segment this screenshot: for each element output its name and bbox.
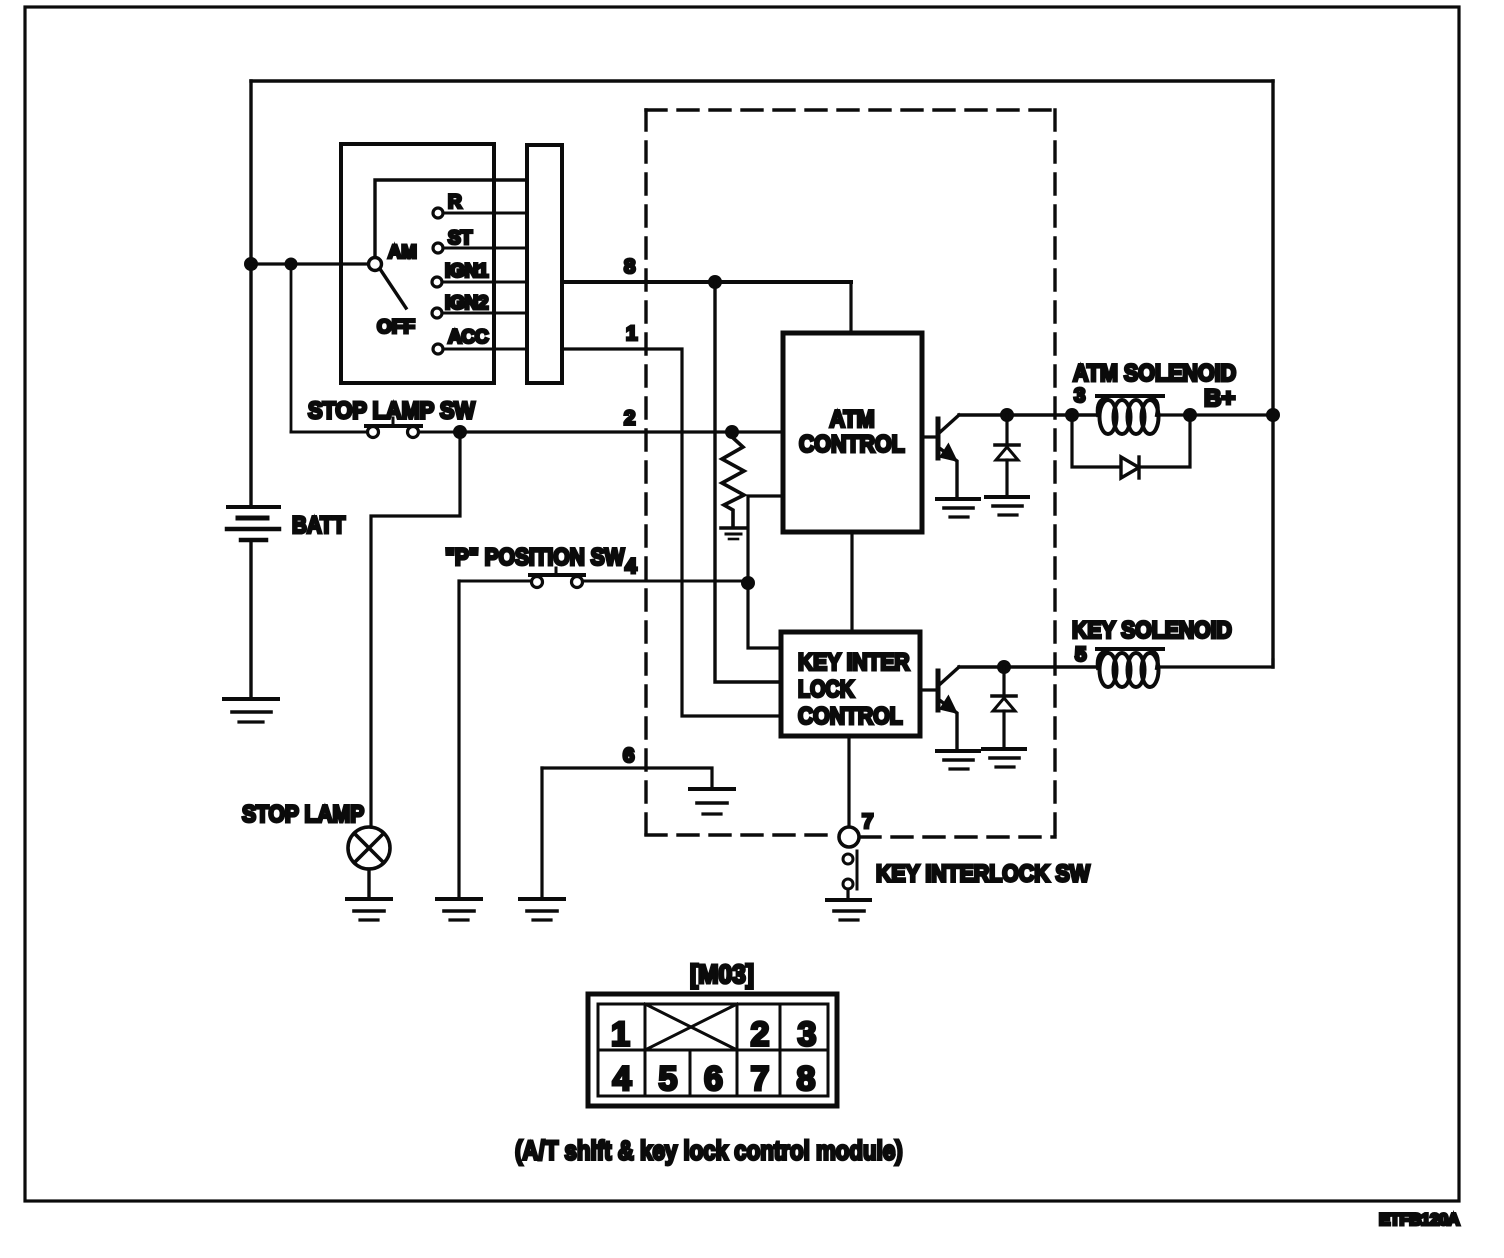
connector M03 [588, 994, 837, 1106]
svg-text:8: 8 [624, 255, 635, 278]
node: battery feed junction [244, 257, 258, 271]
terminal 7 [839, 827, 859, 847]
wire: L2 to B+ riser [1157, 660, 1273, 667]
svg-text:OFF: OFF [377, 317, 415, 338]
svg-text:ETFB120A: ETFB120A [1379, 1210, 1460, 1229]
block: ATM CONTROL U1 [783, 333, 922, 532]
diode D3 flyback loop [1072, 415, 1190, 478]
ground: resistor [721, 528, 746, 539]
svg-text:(A/T shift & key lock control: (A/T shift & key lock control module) [515, 1137, 903, 1166]
svg-text:B+: B+ [1204, 385, 1235, 412]
ground: D2 [983, 749, 1025, 767]
wire 5 collector line [959, 665, 1098, 668]
svg-text:4: 4 [625, 555, 637, 578]
wire 2 [460, 407, 783, 433]
transistor Q1 [922, 415, 959, 498]
ignition contact ST [433, 228, 527, 253]
node: wire 8 junction [708, 275, 722, 289]
ground: P position switch [437, 899, 481, 920]
svg-text:3: 3 [798, 1016, 817, 1054]
connector bar [527, 145, 562, 383]
svg-text:[M03]: [M03] [690, 960, 754, 989]
svg-text:5: 5 [1075, 643, 1086, 666]
ground: wire 6 left [520, 899, 564, 920]
block: KEY INTERLOCK CONTROL U2 [781, 632, 920, 736]
svg-text:2: 2 [624, 407, 635, 430]
node: Q2 collector junction [997, 660, 1011, 674]
wire: AM feed [251, 262, 369, 265]
wire: drop to stop lamp switch [290, 264, 293, 432]
svg-text:1: 1 [626, 322, 637, 345]
svg-text:"P" POSITION SW: "P" POSITION SW [445, 544, 625, 571]
svg-text:6: 6 [704, 1060, 723, 1098]
wire: ignition inner bracket [375, 180, 527, 258]
node: L1 output junction [1183, 408, 1197, 422]
wire: P switch to ground [457, 581, 460, 898]
ignition contact R [433, 192, 527, 218]
svg-text:2: 2 [751, 1016, 770, 1054]
wire: battery feed vertical [249, 81, 252, 506]
ignition switch box [341, 144, 494, 383]
ignition contact IGN1 [432, 261, 527, 287]
svg-text:6: 6 [623, 744, 634, 767]
wire 8 [562, 255, 851, 332]
stop lamp switch [291, 418, 460, 438]
solenoid coil L2 [1097, 649, 1163, 687]
ignition switch AM pivot [369, 258, 382, 271]
node: stop lamp switch junction [453, 425, 467, 439]
diode D2 clamp [992, 667, 1016, 748]
ground: stop lamp [347, 899, 391, 920]
svg-text:CONTROL: CONTROL [798, 703, 903, 730]
svg-text:5: 5 [659, 1060, 678, 1098]
module dashed box [646, 110, 1055, 837]
svg-text:ATM SOLENOID: ATM SOLENOID [1073, 359, 1236, 386]
svg-text:4: 4 [613, 1060, 632, 1098]
wire: pin6 left leg to ground [540, 768, 543, 898]
ground: pin 6 internal [690, 789, 734, 814]
svg-text:ST: ST [448, 228, 473, 249]
svg-text:KEY INTER: KEY INTER [798, 649, 910, 676]
node: stop lamp branch junction [285, 258, 298, 271]
svg-text:STOP LAMP: STOP LAMP [242, 801, 364, 828]
ground: battery [224, 699, 278, 722]
svg-text:R: R [448, 192, 462, 213]
wire: key box to terminal 7 [847, 736, 850, 827]
solenoid coil L1 [1097, 396, 1163, 434]
svg-text:7: 7 [862, 810, 873, 833]
wire 4 [459, 580, 748, 583]
svg-text:3: 3 [1074, 384, 1085, 407]
svg-text:IGN2: IGN2 [445, 293, 488, 314]
stop lamp [348, 827, 390, 898]
node: wire 4 junction [741, 576, 755, 590]
wire: to stop lamp [371, 432, 460, 827]
svg-text:IGN1: IGN1 [445, 261, 489, 282]
svg-text:BATT: BATT [292, 512, 346, 539]
svg-text:ATM: ATM [830, 405, 875, 432]
ignition contact ACC [433, 327, 527, 354]
wire 6 [542, 744, 712, 788]
wire: L1 to B+ [1157, 413, 1273, 416]
"P" position switch [530, 568, 584, 588]
node: pin 3 junction [1065, 408, 1079, 422]
ignition contact IGN2 [432, 293, 527, 318]
wire: pin4 branch to controls [748, 496, 783, 648]
svg-text:KEY SOLENOID: KEY SOLENOID [1072, 616, 1232, 644]
svg-text:8: 8 [797, 1060, 816, 1098]
node: B+ bus junction [1266, 408, 1280, 422]
ground: Q2 emitter [937, 751, 979, 769]
wire 1 [562, 322, 781, 716]
node: resistor top junction [725, 425, 739, 439]
ignition switch lever [380, 269, 406, 308]
svg-text:CONTROL: CONTROL [799, 430, 905, 457]
diode D1 clamp [995, 415, 1019, 496]
svg-text:ACC: ACC [448, 327, 489, 348]
key interlock switch [843, 851, 857, 899]
node: Q1 collector junction [1000, 408, 1014, 422]
wire: pin 8 branch to key interlock control [715, 282, 781, 682]
battery BATT [227, 507, 346, 698]
wire 3 collector line [959, 413, 1098, 416]
resistor R1 [722, 437, 744, 527]
svg-text:KEY INTERLOCK SW: KEY INTERLOCK SW [876, 859, 1090, 886]
wire: top B+ bus [251, 81, 1273, 667]
ground: Q1 emitter [937, 499, 979, 517]
svg-text:LOCK: LOCK [798, 675, 854, 702]
svg-text:7: 7 [751, 1060, 770, 1098]
svg-text:AM: AM [388, 241, 417, 262]
ground: key interlock switch [827, 900, 870, 920]
svg-text:1: 1 [611, 1016, 630, 1054]
ground: D1 [986, 497, 1028, 515]
transistor Q2 [920, 667, 959, 750]
wire: ATM control to key interlock control [850, 532, 853, 632]
